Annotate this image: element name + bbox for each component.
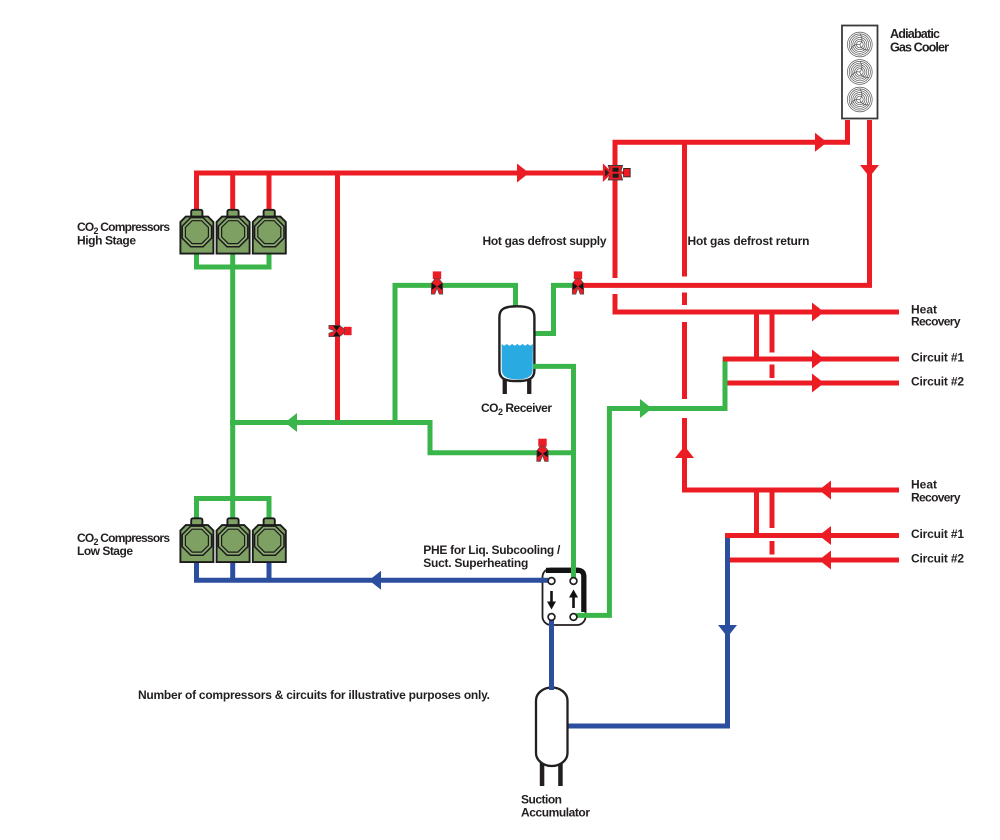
svg-text:Hot gas defrost return: Hot gas defrost return — [688, 234, 810, 248]
svg-text:Recovery: Recovery — [911, 315, 961, 329]
svg-text:Adiabatic: Adiabatic — [890, 27, 940, 41]
svg-text:High Stage: High Stage — [77, 233, 136, 247]
svg-text:Circuit #2: Circuit #2 — [911, 552, 964, 566]
svg-text:PHE for Liq. Subcooling /: PHE for Liq. Subcooling / — [423, 543, 561, 557]
svg-text:Circuit #1: Circuit #1 — [911, 527, 964, 541]
svg-text:Suct. Superheating: Suct. Superheating — [423, 556, 528, 570]
svg-text:Circuit #1: Circuit #1 — [911, 351, 964, 365]
svg-text:CO2 Receiver: CO2 Receiver — [481, 401, 552, 417]
svg-text:Circuit #2: Circuit #2 — [911, 375, 964, 389]
svg-text:Gas Cooler: Gas Cooler — [890, 40, 949, 54]
svg-text:Suction: Suction — [521, 792, 562, 806]
svg-text:Recovery: Recovery — [911, 491, 961, 505]
svg-text:Hot gas defrost supply: Hot gas defrost supply — [483, 234, 607, 248]
svg-text:Heat: Heat — [911, 478, 937, 492]
svg-text:Accumulator: Accumulator — [521, 805, 590, 819]
svg-text:Low Stage: Low Stage — [77, 544, 133, 558]
svg-text:Number of compressors & circui: Number of compressors & circuits for ill… — [138, 688, 490, 702]
